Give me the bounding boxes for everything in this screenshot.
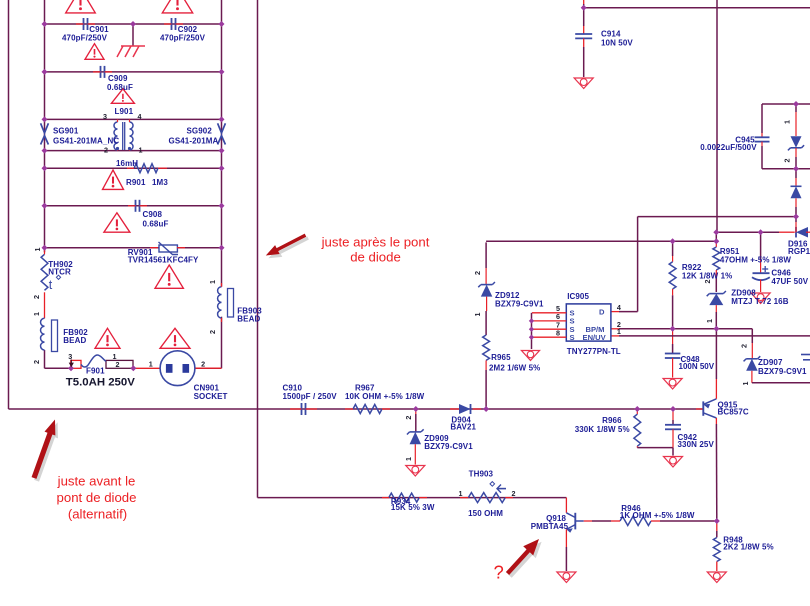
svg-text:?: ? [494, 562, 504, 583]
svg-text:t: t [49, 278, 53, 292]
svg-text:C908: C908 [143, 210, 163, 219]
svg-text:12K 1/8W 1%: 12K 1/8W 1% [682, 272, 732, 281]
svg-text:R901: R901 [126, 178, 146, 187]
svg-text:1M3: 1M3 [152, 178, 168, 187]
svg-text:2: 2 [32, 360, 41, 364]
svg-text:16mH: 16mH [116, 159, 138, 168]
svg-text:47OHM +-5% 1/8W: 47OHM +-5% 1/8W [720, 256, 791, 265]
svg-text:SG902: SG902 [187, 127, 213, 136]
svg-text:2: 2 [104, 146, 108, 155]
svg-text:1: 1 [139, 146, 143, 155]
svg-text:4: 4 [617, 303, 621, 312]
svg-text:1: 1 [33, 248, 42, 252]
svg-text:T5.0AH 250V: T5.0AH 250V [66, 377, 135, 389]
svg-text:RGP10: RGP10 [788, 247, 810, 256]
svg-text:de diode: de diode [350, 250, 401, 265]
svg-text:SG901: SG901 [53, 127, 79, 136]
svg-text:330N 25V: 330N 25V [678, 440, 715, 449]
svg-text:GS41-201MA_NC: GS41-201MA_NC [53, 137, 119, 146]
svg-text:2: 2 [703, 280, 712, 284]
svg-text:1K OHM +-5% 1/8W: 1K OHM +-5% 1/8W [620, 511, 695, 520]
svg-text:pont de diode: pont de diode [57, 490, 137, 505]
svg-text:1: 1 [208, 280, 217, 284]
svg-text:2K2 1/8W 5%: 2K2 1/8W 5% [723, 543, 773, 552]
svg-text:330K 1/8W 5%: 330K 1/8W 5% [575, 425, 630, 434]
svg-text:juste après le pont: juste après le pont [321, 235, 430, 250]
svg-text:47UF 50V: 47UF 50V [771, 277, 808, 286]
svg-text:F901: F901 [86, 367, 105, 376]
svg-text:470pF/250V: 470pF/250V [160, 34, 206, 43]
svg-text:R965: R965 [491, 353, 511, 362]
svg-text:S: S [570, 333, 575, 342]
svg-text:GS41-201MA: GS41-201MA [169, 137, 219, 146]
svg-text:100N 50V: 100N 50V [679, 362, 715, 371]
svg-text:juste avant le: juste avant le [57, 474, 136, 489]
svg-text:1: 1 [32, 312, 41, 316]
svg-text:(alternatif): (alternatif) [68, 507, 127, 522]
svg-text:TVR14561KFC4FY: TVR14561KFC4FY [128, 256, 199, 265]
svg-text:C909: C909 [108, 74, 128, 83]
svg-text:BEAD: BEAD [63, 336, 86, 345]
svg-text:4: 4 [138, 112, 142, 121]
svg-text:2: 2 [783, 159, 792, 163]
svg-text:15K 5% 3W: 15K 5% 3W [391, 503, 435, 512]
svg-text:BZX79-C9V1: BZX79-C9V1 [495, 300, 544, 309]
svg-text:IC905: IC905 [567, 292, 589, 301]
svg-text:BZX79-C9V1: BZX79-C9V1 [424, 442, 473, 451]
svg-text:BAV21: BAV21 [450, 422, 476, 431]
svg-text:0.68uF: 0.68uF [143, 220, 169, 229]
svg-text:PMBTA45: PMBTA45 [531, 522, 569, 531]
svg-text:1: 1 [473, 313, 482, 317]
svg-text:1: 1 [459, 489, 463, 498]
svg-text:C914: C914 [601, 30, 621, 39]
svg-text:2: 2 [32, 295, 41, 299]
svg-text:1: 1 [404, 457, 413, 461]
svg-text:8: 8 [556, 328, 560, 337]
svg-text:BZX79-C9V1: BZX79-C9V1 [758, 367, 807, 376]
svg-text:0.68uF: 0.68uF [107, 83, 133, 92]
svg-text:SOCKET: SOCKET [194, 392, 228, 401]
svg-text:BC857C: BC857C [718, 407, 749, 416]
svg-text:ZD907: ZD907 [758, 358, 783, 367]
svg-text:2: 2 [116, 360, 120, 369]
svg-text:150 OHM: 150 OHM [468, 509, 503, 518]
svg-text:10K OHM +-5% 1/8W: 10K OHM +-5% 1/8W [345, 392, 425, 401]
svg-text:470pF/250V: 470pF/250V [62, 34, 108, 43]
svg-text:0.0022uF/500V: 0.0022uF/500V [700, 143, 757, 152]
svg-text:1: 1 [783, 120, 792, 124]
svg-text:NTCR: NTCR [48, 268, 71, 277]
svg-text:10N 50V: 10N 50V [601, 39, 633, 48]
svg-text:2: 2 [208, 330, 217, 334]
svg-text:R966: R966 [602, 416, 622, 425]
svg-text:1: 1 [617, 327, 621, 336]
svg-text:TNY277PN-TL: TNY277PN-TL [567, 347, 621, 356]
svg-text:MTZJ T-72 16B: MTZJ T-72 16B [731, 297, 788, 306]
svg-text:2: 2 [473, 271, 482, 275]
svg-text:BEAD: BEAD [237, 315, 260, 324]
svg-text:3: 3 [103, 112, 107, 121]
svg-text:TH903: TH903 [469, 470, 494, 479]
svg-text:D: D [599, 308, 605, 317]
svg-text:1500pF / 250V: 1500pF / 250V [283, 392, 338, 401]
svg-text:L901: L901 [115, 107, 134, 116]
svg-text:2: 2 [740, 344, 749, 348]
svg-text:1: 1 [705, 319, 714, 323]
svg-text:1: 1 [149, 360, 153, 369]
svg-text:1: 1 [741, 382, 750, 386]
svg-text:2: 2 [512, 489, 516, 498]
svg-text:2M2 1/6W 5%: 2M2 1/6W 5% [489, 364, 540, 373]
svg-text:EN/UV: EN/UV [583, 333, 607, 342]
svg-text:2: 2 [201, 360, 205, 369]
svg-text:2: 2 [404, 416, 413, 420]
